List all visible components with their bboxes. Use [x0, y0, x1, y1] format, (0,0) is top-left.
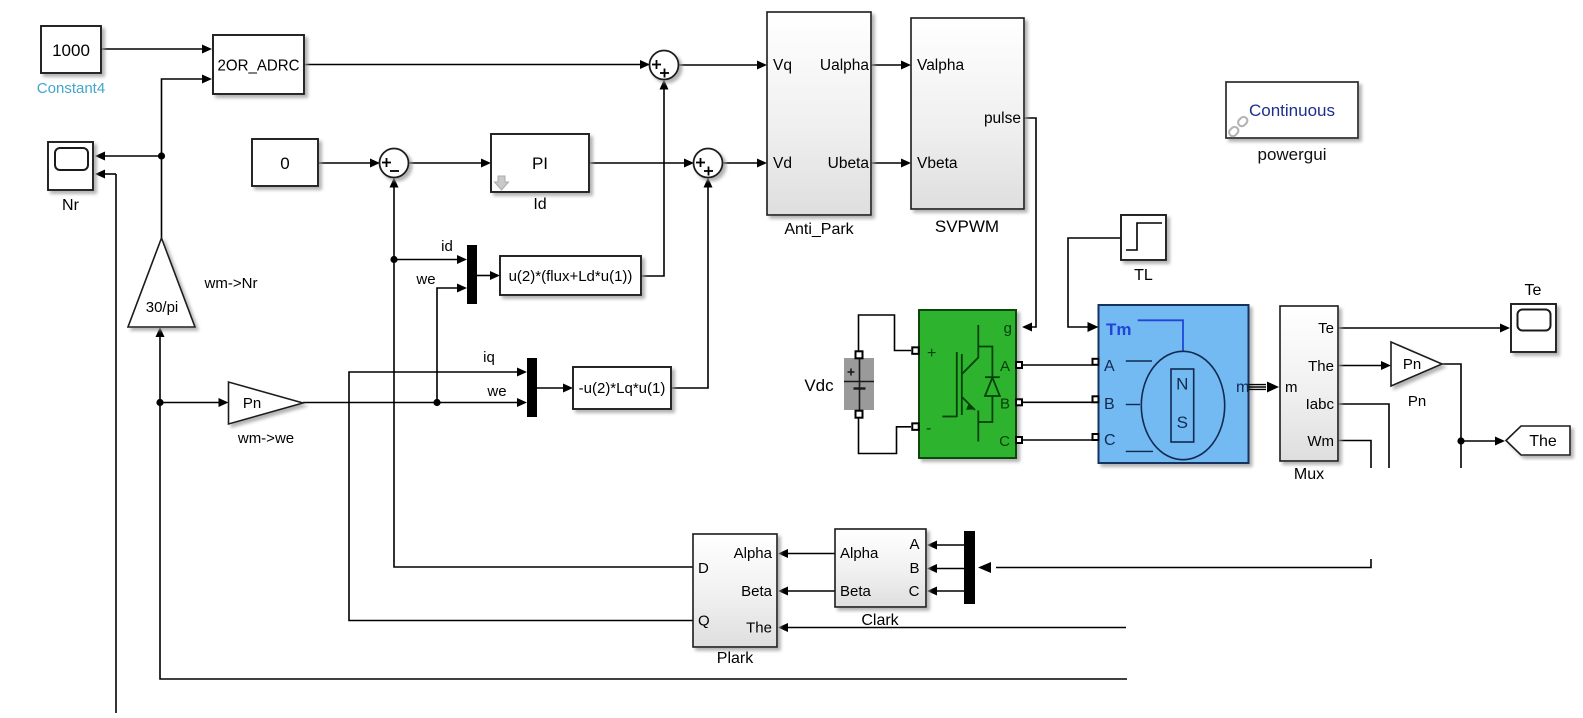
- svg-text:Iabc: Iabc: [1306, 396, 1335, 413]
- svg-text:wm->we: wm->we: [237, 430, 294, 447]
- svg-text:we: we: [415, 271, 435, 288]
- svg-text:N: N: [1176, 375, 1188, 394]
- svg-text:m: m: [1285, 379, 1298, 396]
- svg-text:wm->Nr: wm->Nr: [204, 275, 258, 292]
- svg-text:Vbeta: Vbeta: [917, 155, 958, 172]
- svg-text:pulse: pulse: [984, 110, 1021, 127]
- svg-text:0: 0: [280, 154, 289, 173]
- svg-text:1000: 1000: [52, 41, 90, 60]
- svg-text:Clark: Clark: [861, 612, 899, 629]
- svg-text:Vq: Vq: [773, 57, 792, 74]
- svg-text:B: B: [909, 560, 919, 577]
- svg-text:we: we: [486, 383, 506, 400]
- svg-text:C: C: [999, 433, 1010, 450]
- svg-text:iq: iq: [483, 349, 495, 366]
- svg-text:Vd: Vd: [773, 155, 792, 172]
- svg-text:Tm: Tm: [1106, 320, 1132, 339]
- svg-text:Plark: Plark: [717, 650, 754, 667]
- svg-text:C: C: [909, 583, 920, 600]
- svg-text:SVPWM: SVPWM: [935, 217, 999, 236]
- svg-text:A: A: [909, 536, 919, 553]
- svg-text:C: C: [1104, 432, 1116, 449]
- svg-text:g: g: [1004, 320, 1012, 337]
- svg-text:powergui: powergui: [1258, 145, 1327, 164]
- svg-text:-: -: [926, 420, 931, 437]
- svg-text:Ubeta: Ubeta: [828, 155, 870, 172]
- svg-text:TL: TL: [1134, 267, 1153, 284]
- svg-text:Continuous: Continuous: [1249, 101, 1335, 120]
- svg-text:id: id: [441, 238, 453, 255]
- svg-text:Te: Te: [1525, 282, 1542, 299]
- svg-text:Ualpha: Ualpha: [820, 57, 869, 74]
- svg-text:Q: Q: [698, 613, 710, 630]
- svg-text:A: A: [1000, 358, 1010, 375]
- svg-text:D: D: [698, 560, 709, 577]
- svg-text:Mux: Mux: [1294, 466, 1324, 483]
- svg-text:PI: PI: [532, 154, 548, 173]
- svg-text:Nr: Nr: [62, 197, 80, 214]
- svg-text:Wm: Wm: [1307, 433, 1334, 450]
- svg-text:Id: Id: [533, 196, 546, 213]
- svg-text:Beta: Beta: [840, 583, 872, 600]
- svg-text:B: B: [1000, 396, 1010, 413]
- svg-text:Alpha: Alpha: [840, 545, 879, 562]
- svg-text:Valpha: Valpha: [917, 57, 964, 74]
- svg-text:Beta: Beta: [741, 583, 773, 600]
- svg-text:B: B: [1104, 396, 1115, 413]
- svg-text:m: m: [1236, 379, 1249, 396]
- svg-text:Pn: Pn: [1403, 356, 1421, 373]
- svg-text:The: The: [746, 620, 772, 637]
- svg-text:Te: Te: [1318, 320, 1334, 337]
- svg-text:Constant4: Constant4: [37, 80, 105, 97]
- svg-text:Pn: Pn: [243, 395, 261, 412]
- svg-text:A: A: [1104, 358, 1115, 375]
- svg-text:S: S: [1177, 413, 1188, 432]
- svg-text:Anti_Park: Anti_Park: [784, 221, 854, 238]
- svg-text:-u(2)*Lq*u(1): -u(2)*Lq*u(1): [579, 380, 666, 397]
- svg-text:The: The: [1308, 358, 1334, 375]
- svg-text:30/pi: 30/pi: [146, 299, 179, 316]
- svg-text:2OR_ADRC: 2OR_ADRC: [218, 58, 300, 75]
- svg-text:The: The: [1529, 433, 1557, 450]
- svg-text:Pn: Pn: [1408, 393, 1426, 410]
- svg-text:Alpha: Alpha: [734, 545, 773, 562]
- svg-text:u(2)*(flux+Ld*u(1)): u(2)*(flux+Ld*u(1)): [509, 268, 633, 285]
- svg-text:Vdc: Vdc: [804, 376, 834, 395]
- svg-text:+: +: [927, 345, 936, 362]
